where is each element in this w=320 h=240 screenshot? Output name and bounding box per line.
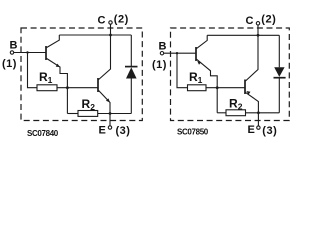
svg-text:(1): (1) [152,59,167,71]
svg-text:E: E [99,125,106,137]
svg-text:1: 1 [48,75,53,85]
svg-text:B: B [159,41,167,53]
svg-text:1: 1 [198,75,203,85]
svg-text:2: 2 [90,102,95,112]
svg-text:R: R [82,97,91,111]
svg-text:(3): (3) [262,125,277,137]
svg-text:B: B [10,39,18,51]
svg-text:C: C [246,15,254,27]
svg-text:2: 2 [238,102,243,112]
svg-text:(3): (3) [116,125,131,137]
svg-text:(2): (2) [261,13,276,25]
svg-text:SC07840: SC07840 [27,129,59,138]
svg-text:E: E [248,124,255,136]
svg-text:(2): (2) [114,13,129,25]
svg-text:R: R [229,97,238,111]
svg-text:SC07850: SC07850 [177,127,209,136]
svg-text:(1): (1) [2,58,17,70]
svg-text:C: C [98,14,106,26]
